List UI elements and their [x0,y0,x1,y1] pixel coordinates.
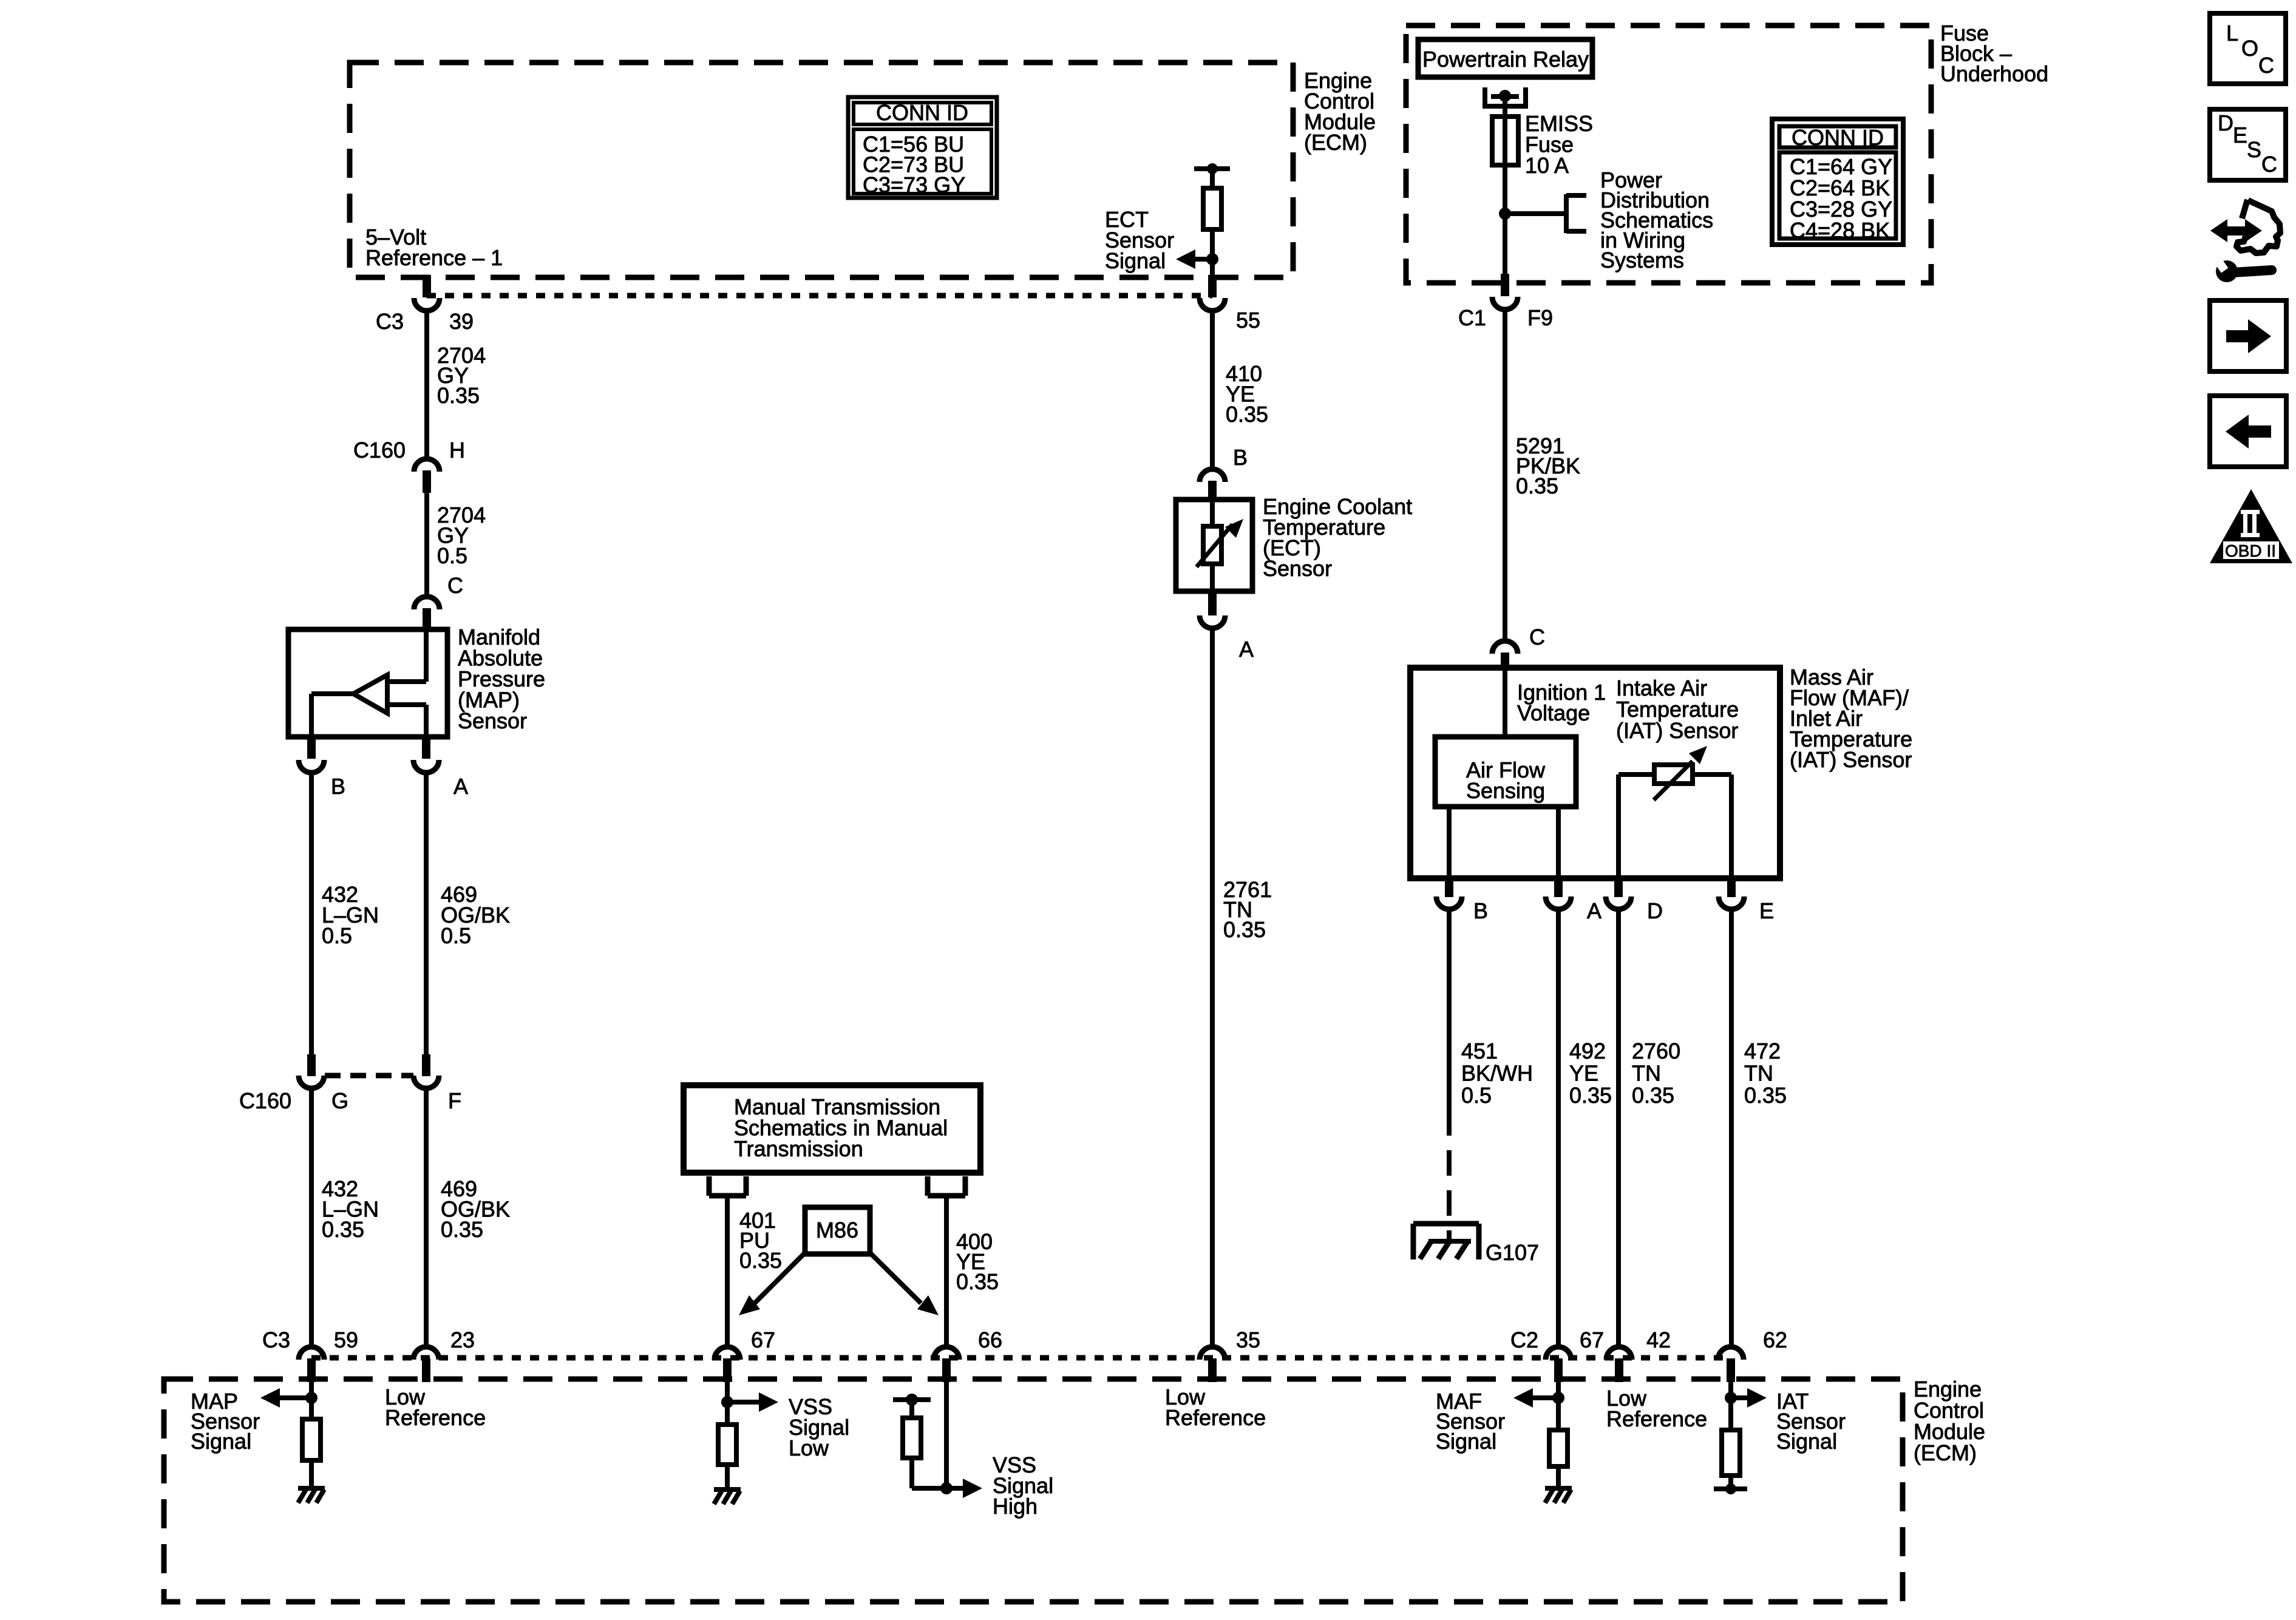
svg-text:C3: C3 [376,309,404,334]
svg-text:F: F [448,1088,461,1113]
svg-text:C: C [447,573,463,598]
svg-text:0.35: 0.35 [1223,917,1266,942]
svg-text:C160: C160 [239,1088,291,1113]
svg-text:C160: C160 [353,438,406,463]
svg-text:62: 62 [1763,1327,1787,1352]
svg-text:OBD II: OBD II [2225,541,2276,560]
svg-text:Sensor: Sensor [1263,556,1332,581]
svg-text:492: 492 [1569,1039,1606,1063]
svg-text:High: High [993,1494,1038,1519]
svg-text:CONN ID: CONN ID [1792,125,1884,150]
svg-text:Voltage: Voltage [1517,700,1590,725]
svg-text:D: D [1647,898,1663,923]
svg-text:C2: C2 [1510,1327,1538,1352]
svg-text:Reference: Reference [1606,1406,1707,1431]
svg-text:0.5: 0.5 [322,923,352,948]
svg-text:59: 59 [334,1327,358,1352]
svg-text:E: E [1759,898,1774,923]
svg-text:10 A: 10 A [1525,153,1569,178]
svg-text:C: C [2258,53,2274,78]
svg-text:G: G [331,1088,348,1113]
svg-text:L: L [2226,21,2238,46]
svg-text:C4=28 BK: C4=28 BK [1790,218,1890,243]
svg-text:66: 66 [978,1327,1002,1352]
svg-text:0.35: 0.35 [322,1217,364,1242]
svg-text:0.5: 0.5 [437,543,467,568]
svg-text:A: A [1239,637,1254,662]
svg-text:(ECM): (ECM) [1914,1440,1977,1465]
svg-text:Powertrain Relay: Powertrain Relay [1422,47,1589,72]
svg-text:67: 67 [751,1327,775,1352]
svg-text:23: 23 [450,1327,475,1352]
svg-text:(ECM): (ECM) [1304,130,1367,155]
svg-text:0.35: 0.35 [1516,473,1558,498]
svg-text:Sensor: Sensor [458,708,527,733]
svg-text:0.35: 0.35 [1226,402,1268,427]
svg-text:(IAT) Sensor: (IAT) Sensor [1790,747,1912,772]
svg-text:O: O [2241,36,2258,61]
svg-text:TN: TN [1744,1061,1773,1086]
svg-text:YE: YE [1569,1061,1598,1086]
svg-text:C: C [1529,625,1545,649]
svg-text:0.35: 0.35 [1569,1083,1612,1108]
svg-text:0.35: 0.35 [437,383,480,408]
svg-text:E: E [2233,123,2247,147]
svg-text:Reference – 1: Reference – 1 [365,245,503,270]
svg-text:2760: 2760 [1632,1039,1680,1063]
svg-text:A: A [1587,898,1601,923]
svg-text:M86: M86 [816,1218,858,1242]
svg-text:0.35: 0.35 [441,1217,483,1242]
svg-text:C1: C1 [1458,305,1486,330]
svg-text:(IAT) Sensor: (IAT) Sensor [1616,718,1738,743]
svg-text:451: 451 [1461,1039,1498,1063]
svg-text:D: D [2218,110,2233,135]
svg-text:G107: G107 [1486,1240,1539,1265]
svg-text:0.35: 0.35 [739,1248,782,1273]
svg-text:55: 55 [1236,308,1260,333]
svg-text:0.35: 0.35 [1632,1083,1674,1108]
svg-text:Transmission: Transmission [734,1136,863,1161]
svg-text:Signal: Signal [1105,248,1166,273]
svg-text:Reference: Reference [385,1405,486,1430]
svg-text:0.5: 0.5 [441,923,471,948]
svg-text:0.35: 0.35 [1744,1083,1787,1108]
svg-text:Signal: Signal [1436,1429,1496,1454]
svg-text:S: S [2247,137,2261,162]
svg-text:BK/WH: BK/WH [1461,1061,1533,1086]
svg-text:C: C [2261,152,2277,177]
svg-text:Signal: Signal [1776,1429,1837,1454]
svg-text:A: A [453,774,468,799]
svg-text:35: 35 [1236,1327,1260,1352]
svg-text:B: B [331,774,345,799]
svg-text:42: 42 [1646,1327,1671,1352]
svg-text:Systems: Systems [1600,248,1684,273]
svg-text:Underhood: Underhood [1940,61,2048,86]
svg-text:67: 67 [1580,1327,1604,1352]
svg-text:Reference: Reference [1165,1405,1266,1430]
svg-text:B: B [1473,898,1488,923]
svg-text:F9: F9 [1527,305,1553,330]
svg-text:C3: C3 [262,1327,290,1352]
svg-text:H: H [449,438,465,463]
svg-text:Signal: Signal [191,1429,251,1454]
svg-text:TN: TN [1632,1061,1661,1086]
svg-text:B: B [1233,445,1248,470]
svg-text:Sensing: Sensing [1466,778,1545,803]
svg-text:472: 472 [1744,1039,1781,1063]
svg-text:Low: Low [789,1435,829,1460]
svg-text:39: 39 [449,309,474,334]
svg-text:C3=73 GY: C3=73 GY [863,172,965,197]
svg-text:CONN ID: CONN ID [876,100,968,125]
svg-text:0.5: 0.5 [1461,1083,1492,1108]
svg-text:0.35: 0.35 [956,1269,999,1294]
